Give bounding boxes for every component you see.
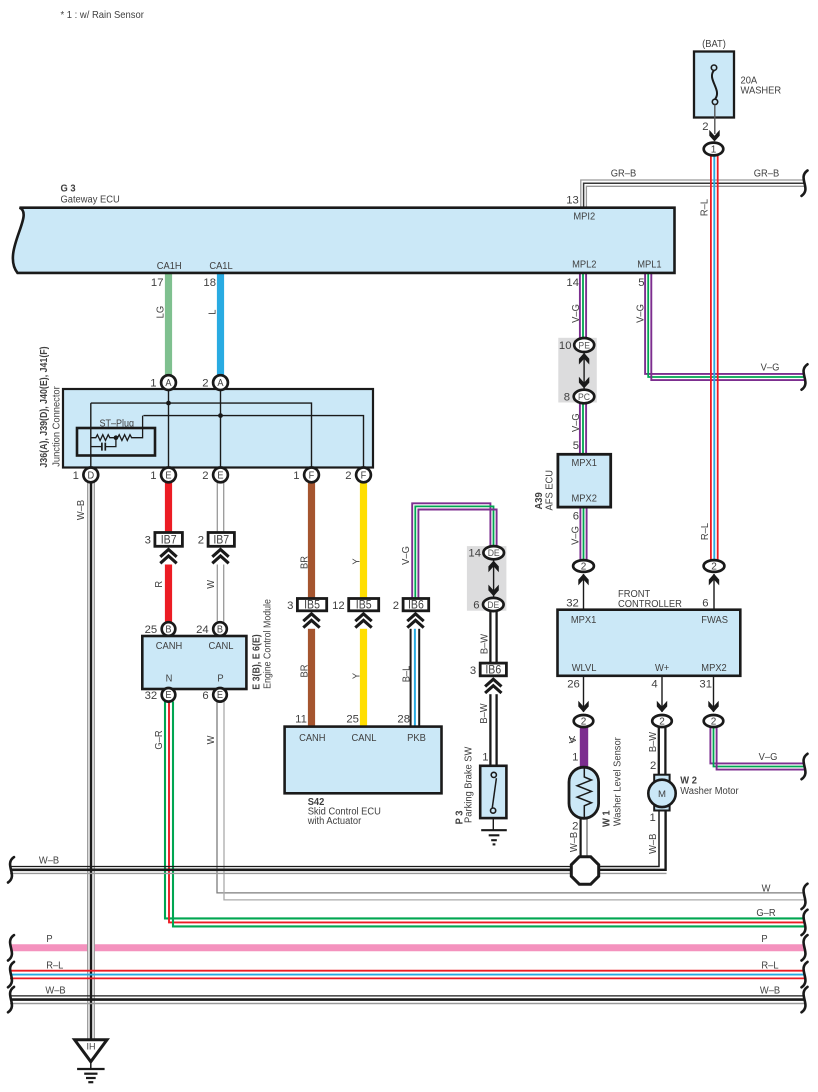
- svg-text:GR–B: GR–B: [754, 168, 780, 180]
- svg-text:Washer Motor: Washer Motor: [680, 785, 739, 797]
- svg-text:W–B: W–B: [39, 855, 60, 867]
- svg-text:Y: Y: [351, 558, 363, 565]
- svg-text:DE: DE: [487, 600, 499, 611]
- svg-text:26: 26: [567, 679, 580, 691]
- ECM pin 6 E: [213, 688, 227, 702]
- break W-B bottom left: [8, 987, 14, 1012]
- washer level sensor W1: [569, 767, 599, 818]
- wire W from ECM pin 6 E to right edge: [221, 702, 806, 897]
- wire W-B (washer level sensor to octagon): [579, 818, 581, 857]
- svg-text:2: 2: [202, 470, 208, 482]
- svg-text:BR: BR: [299, 665, 311, 678]
- junction pin 2 E: [213, 468, 228, 483]
- svg-text:F: F: [361, 470, 367, 481]
- svg-text:Parking Brake SW: Parking Brake SW: [463, 746, 475, 823]
- break P left: [8, 935, 14, 960]
- wire W (junction 2 E to IB7 to ECM 24 B): [218, 482, 223, 533]
- wire V (front controller WLVL to washer level sensor): [580, 727, 588, 767]
- svg-text:E: E: [217, 470, 223, 481]
- svg-text:LG: LG: [155, 306, 167, 318]
- ECM pin 32 E: [162, 688, 176, 702]
- svg-text:2: 2: [581, 717, 587, 728]
- svg-text:V–G: V–G: [570, 304, 582, 323]
- break V-G right upper: [802, 364, 808, 389]
- connector 14 DE: [483, 546, 504, 559]
- wire fuse pin 2 to connector 1: [714, 105, 716, 135]
- svg-text:4: 4: [651, 679, 657, 691]
- svg-text:WASHER: WASHER: [741, 85, 782, 97]
- svg-text:CANL: CANL: [209, 641, 234, 653]
- svg-text:6: 6: [573, 510, 579, 522]
- svg-text:MPX2: MPX2: [701, 662, 726, 674]
- svg-text:B: B: [165, 624, 171, 635]
- svg-text:CANL: CANL: [352, 732, 377, 744]
- svg-text:V–G: V–G: [570, 526, 582, 545]
- svg-text:P: P: [46, 933, 53, 945]
- svg-text:25: 25: [145, 624, 158, 636]
- svg-text:6: 6: [702, 598, 708, 610]
- svg-text:25: 25: [346, 713, 359, 725]
- wire W-B vertical (junction D to IH ground): [88, 482, 95, 1038]
- svg-text:B–L: B–L: [401, 665, 413, 682]
- svg-text:G–R: G–R: [154, 730, 166, 749]
- front controller box: [558, 610, 741, 676]
- gray panel DE: [467, 546, 507, 611]
- svg-text:2: 2: [345, 470, 351, 482]
- svg-text:IH: IH: [87, 1041, 96, 1051]
- svg-text:8: 8: [564, 392, 570, 404]
- junction pin 2 A: [213, 375, 228, 390]
- svg-text:2: 2: [572, 820, 578, 832]
- svg-text:M: M: [658, 789, 666, 800]
- svg-text:2: 2: [711, 562, 717, 573]
- svg-text:2: 2: [202, 378, 208, 390]
- svg-text:A: A: [217, 378, 224, 389]
- svg-text:B–W: B–W: [479, 633, 491, 654]
- svg-text:W: W: [762, 883, 771, 895]
- capacitor in ST-Plug: [106, 438, 116, 447]
- svg-text:R–L: R–L: [699, 522, 711, 540]
- junction pin 1 E: [161, 468, 176, 483]
- IH triangle ground connector: [75, 1040, 107, 1062]
- svg-text:12: 12: [332, 600, 345, 612]
- ECM pin 25 B: [162, 622, 176, 636]
- wire V-G from front controller MPX2 to right edge: [710, 727, 805, 763]
- svg-text:R–L: R–L: [699, 198, 711, 216]
- wire W-B bus upper (left edge to octagon junction): [10, 866, 572, 868]
- break V-G right lower: [802, 754, 808, 779]
- wire P bus (pink): [10, 944, 805, 951]
- svg-text:N: N: [166, 673, 173, 685]
- wire R (junction 1 E to IB7 to ECM 25 B): [165, 482, 172, 533]
- connector 10 PE: [574, 338, 594, 352]
- wire B-W (front controller W+ to washer motor): [658, 727, 660, 775]
- svg-text:32: 32: [566, 598, 579, 610]
- svg-text:14: 14: [468, 548, 481, 560]
- svg-text:14: 14: [566, 277, 579, 289]
- ground at parking brake SW: [492, 818, 494, 830]
- svg-text:B: B: [217, 624, 223, 635]
- svg-text:3: 3: [470, 665, 476, 677]
- svg-text:GR–B: GR–B: [611, 168, 637, 180]
- connector 6 DE: [483, 598, 504, 611]
- svg-text:W–B: W–B: [760, 985, 781, 997]
- svg-text:J36(A), J39(D), J40(E), J41(F): J36(A), J39(D), J40(E), J41(F): [38, 346, 50, 467]
- svg-text:24: 24: [196, 624, 209, 636]
- AFS ECU box: [558, 454, 611, 507]
- svg-text:IB6: IB6: [408, 599, 424, 612]
- svg-text:V–G: V–G: [759, 752, 778, 764]
- svg-text:PE: PE: [578, 340, 590, 351]
- svg-text:2: 2: [659, 717, 665, 728]
- junction pin 2 F: [356, 468, 371, 483]
- svg-text:IB7: IB7: [161, 534, 177, 547]
- gray panel PE/PC: [558, 338, 597, 403]
- svg-text:1: 1: [482, 751, 488, 763]
- svg-text:R: R: [154, 581, 166, 588]
- junction pin 1 D: [83, 468, 98, 483]
- svg-text:Engine Control Module: Engine Control Module: [262, 599, 274, 689]
- svg-text:IB5: IB5: [356, 599, 372, 612]
- wire Y (junction 2 F to IB5 to skid CANL 25): [360, 482, 367, 599]
- IB5 connector 3: [297, 599, 326, 611]
- svg-text:2: 2: [393, 600, 399, 612]
- svg-text:IB7: IB7: [213, 534, 229, 547]
- wire B-W (6 DE to IB6 to parking brake SW): [489, 611, 491, 664]
- svg-text:WLVL: WLVL: [572, 662, 597, 674]
- svg-text:R–L: R–L: [761, 960, 779, 972]
- svg-text:W–B: W–B: [568, 831, 580, 852]
- skid control ECU box: [285, 727, 442, 794]
- svg-text:B–W: B–W: [478, 703, 490, 724]
- svg-text:3: 3: [145, 535, 151, 547]
- break R-L left: [8, 962, 14, 987]
- arrow into connector 1: [709, 130, 719, 142]
- svg-text:W: W: [205, 579, 217, 588]
- svg-text:FWAS: FWAS: [701, 614, 728, 626]
- svg-text:L: L: [207, 309, 219, 315]
- svg-text:10: 10: [559, 340, 572, 352]
- svg-text:V–G: V–G: [570, 413, 582, 432]
- svg-text:V–G: V–G: [635, 304, 647, 323]
- svg-text:V–G: V–G: [400, 546, 412, 565]
- svg-text:CANH: CANH: [156, 641, 182, 653]
- engine control module box: [142, 636, 246, 689]
- svg-text:PKB: PKB: [407, 732, 426, 744]
- connector 2 at W+: [661, 676, 663, 712]
- arrows between DE connectors: [493, 558, 495, 599]
- svg-text:W–B: W–B: [45, 985, 66, 997]
- svg-text:AFS ECU: AFS ECU: [544, 470, 556, 511]
- wire R-L bus (bottom): [10, 970, 805, 972]
- junction pin 1 A: [161, 375, 176, 390]
- junction internal vertical 2A-2E: [220, 389, 222, 468]
- connector 8 PC: [574, 390, 595, 404]
- octagon junction: [571, 857, 598, 884]
- svg-text:DE: DE: [488, 548, 500, 559]
- svg-text:R–L: R–L: [46, 960, 64, 972]
- svg-text:A: A: [165, 378, 172, 389]
- ECM pin 24 B: [213, 622, 227, 636]
- svg-text:PC: PC: [578, 392, 590, 403]
- svg-text:W 1: W 1: [601, 810, 613, 827]
- IB5 connector 12: [349, 599, 379, 611]
- connector 2 at FWAS: [713, 574, 715, 610]
- IB7 connector 2: [208, 533, 234, 547]
- svg-text:E: E: [217, 690, 223, 701]
- IB6 connector 2: [403, 599, 429, 611]
- wire LG (gateway CA1H to junction A): [165, 274, 172, 376]
- svg-text:1: 1: [650, 812, 656, 824]
- svg-text:Gateway ECU: Gateway ECU: [61, 194, 120, 206]
- svg-text:BR: BR: [299, 556, 311, 569]
- svg-text:1: 1: [293, 470, 299, 482]
- junction internal wire CANH row: [91, 403, 312, 468]
- svg-text:Junction Connector: Junction Connector: [51, 386, 63, 467]
- break W-B bottom right: [802, 987, 808, 1012]
- svg-text:31: 31: [699, 679, 712, 691]
- svg-text:W–B: W–B: [75, 499, 87, 520]
- wire V-G (IB6 up and over to 14 DE): [412, 503, 490, 598]
- svg-text:5: 5: [573, 440, 579, 452]
- svg-text:2: 2: [581, 562, 587, 573]
- svg-text:with Actuator: with Actuator: [307, 815, 362, 827]
- svg-text:P: P: [217, 673, 224, 685]
- svg-text:F: F: [309, 470, 315, 481]
- svg-text:W: W: [205, 735, 217, 744]
- wire L (gateway CA1L to junction A): [217, 274, 224, 376]
- break R-L right: [802, 962, 808, 987]
- IB7 connector 3: [155, 533, 183, 547]
- ground at IH: [90, 1062, 92, 1069]
- svg-text:2: 2: [650, 760, 656, 772]
- svg-text:2: 2: [711, 717, 717, 728]
- washer motor W2: [654, 775, 669, 783]
- svg-text:28: 28: [397, 713, 410, 725]
- svg-text:32: 32: [145, 690, 158, 702]
- svg-text:18: 18: [203, 277, 216, 289]
- break W-B bus upper left: [8, 857, 14, 882]
- wire W-B bus (bottom): [10, 995, 805, 997]
- junction internal vertical D: [90, 403, 92, 468]
- svg-text:2: 2: [198, 535, 204, 547]
- svg-text:W–B: W–B: [648, 833, 660, 854]
- break W right: [802, 884, 808, 909]
- svg-text:* 1 : w/ Rain Sensor: * 1 : w/ Rain Sensor: [61, 9, 145, 21]
- gateway ECU G3 box: [13, 208, 675, 273]
- wire GR-B from gateway pin 13 to right edge: [581, 180, 805, 209]
- svg-text:P: P: [761, 933, 768, 945]
- svg-text:Washer Level Sensor: Washer Level Sensor: [612, 737, 624, 827]
- svg-text:(BAT): (BAT): [702, 39, 726, 51]
- connector 2 at MPX1: [583, 574, 585, 610]
- wire V-G from gateway MPL1 to right edge: [645, 274, 805, 374]
- arrows between PE and PC: [583, 350, 585, 393]
- svg-text:MPX2: MPX2: [571, 493, 596, 505]
- svg-text:17: 17: [151, 277, 164, 289]
- svg-text:MPI2: MPI2: [573, 211, 595, 223]
- svg-text:1: 1: [150, 470, 156, 482]
- svg-text:13: 13: [566, 195, 579, 207]
- svg-text:1: 1: [73, 470, 79, 482]
- wire V-G (8 PC to AFS MPX1): [579, 403, 581, 455]
- IB6 connector 3: [480, 663, 506, 676]
- junction internal vertical 1A-1E: [168, 389, 170, 468]
- svg-text:V–G: V–G: [761, 362, 780, 374]
- svg-text:W+: W+: [655, 662, 669, 674]
- svg-text:6: 6: [473, 600, 479, 612]
- svg-text:5: 5: [638, 277, 644, 289]
- svg-text:11: 11: [295, 713, 307, 725]
- connector 2 at WLVL: [583, 676, 585, 712]
- svg-text:CA1L: CA1L: [209, 261, 233, 273]
- svg-text:MPX1: MPX1: [571, 614, 597, 626]
- svg-text:Y: Y: [351, 672, 363, 679]
- svg-text:D: D: [87, 470, 94, 481]
- break P right: [802, 935, 808, 960]
- svg-text:1: 1: [572, 751, 578, 763]
- svg-text:IB5: IB5: [304, 599, 320, 612]
- wire W-B from washer motor down to octagon: [598, 810, 659, 867]
- svg-text:E: E: [165, 690, 171, 701]
- wire G-R from ECM pin 32 E to right edge: [165, 702, 805, 919]
- svg-text:MPX1: MPX1: [571, 457, 597, 469]
- parking brake SW box: [480, 766, 506, 818]
- svg-text:CONTROLLER: CONTROLLER: [618, 598, 682, 610]
- svg-text:IB6: IB6: [485, 664, 501, 677]
- connector 1: [704, 143, 724, 156]
- svg-text:MPL1: MPL1: [637, 259, 662, 271]
- svg-text:B–W: B–W: [648, 731, 660, 752]
- svg-text:V: V: [567, 737, 579, 744]
- fuse 20A WASHER: [694, 52, 734, 118]
- svg-text:1: 1: [711, 145, 717, 156]
- wire B-L (skid PKB 28 to IB6): [410, 626, 412, 727]
- break GR-B right: [802, 171, 808, 196]
- svg-text:MPL2: MPL2: [572, 259, 596, 271]
- junction pin 1 F: [304, 468, 319, 483]
- svg-text:6: 6: [202, 690, 208, 702]
- svg-text:1: 1: [150, 378, 156, 390]
- break G-R right: [802, 910, 808, 935]
- wire V-G (gateway MPL2 to 10 PE): [579, 274, 581, 339]
- junction connector box: [63, 389, 373, 468]
- wire R-L (battery fuse to front controller FWAS): [710, 156, 712, 561]
- svg-text:CA1H: CA1H: [157, 261, 182, 273]
- wire BR (junction 1 F to IB5 to skid CANH 11): [308, 482, 315, 599]
- svg-text:E: E: [165, 470, 171, 481]
- svg-text:G–R: G–R: [756, 907, 775, 919]
- connector 2 at MPX2: [713, 676, 715, 712]
- svg-text:2: 2: [702, 121, 708, 133]
- svg-text:CANH: CANH: [299, 732, 325, 744]
- svg-text:3: 3: [287, 600, 293, 612]
- wire V-G (AFS MPX2 to connector 2): [579, 507, 581, 560]
- junction internal wire CANL row: [143, 416, 363, 468]
